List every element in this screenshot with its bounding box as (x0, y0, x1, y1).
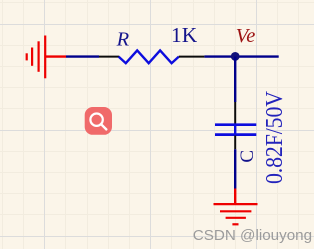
node Ve junction dot (231, 52, 240, 61)
pin bottom lead of C (234, 136, 236, 150)
wire from C to GND2 (234, 149, 236, 188)
wire red stub to GND2 (234, 189, 236, 205)
pin right lead of R (179, 56, 205, 58)
wire from node Ve down to capacitor (234, 57, 236, 102)
svg-text:C: C (237, 150, 258, 163)
pin left lead of R (99, 56, 119, 58)
ground GND2 (bottom earth-ground symbol) (214, 204, 258, 224)
ground GND1 (left earth-ground symbol, rotated) (27, 36, 46, 79)
magnifier watermark icon (85, 107, 112, 135)
pin top lead of C (234, 102, 236, 124)
svg-text:CSDN @liouyong: CSDN @liouyong (193, 227, 312, 244)
resistor R (119, 50, 179, 63)
svg-text:Ve: Ve (236, 25, 256, 47)
svg-text:0.82F/50V: 0.82F/50V (261, 91, 288, 184)
wire from GND1 to resistor (66, 55, 99, 57)
wire from R through node Ve to right end (204, 55, 278, 57)
wire red stub from GND1 (45, 55, 66, 57)
svg-text:R: R (116, 28, 130, 50)
capacitor C plates (215, 125, 256, 135)
svg-text:1K: 1K (171, 23, 198, 47)
